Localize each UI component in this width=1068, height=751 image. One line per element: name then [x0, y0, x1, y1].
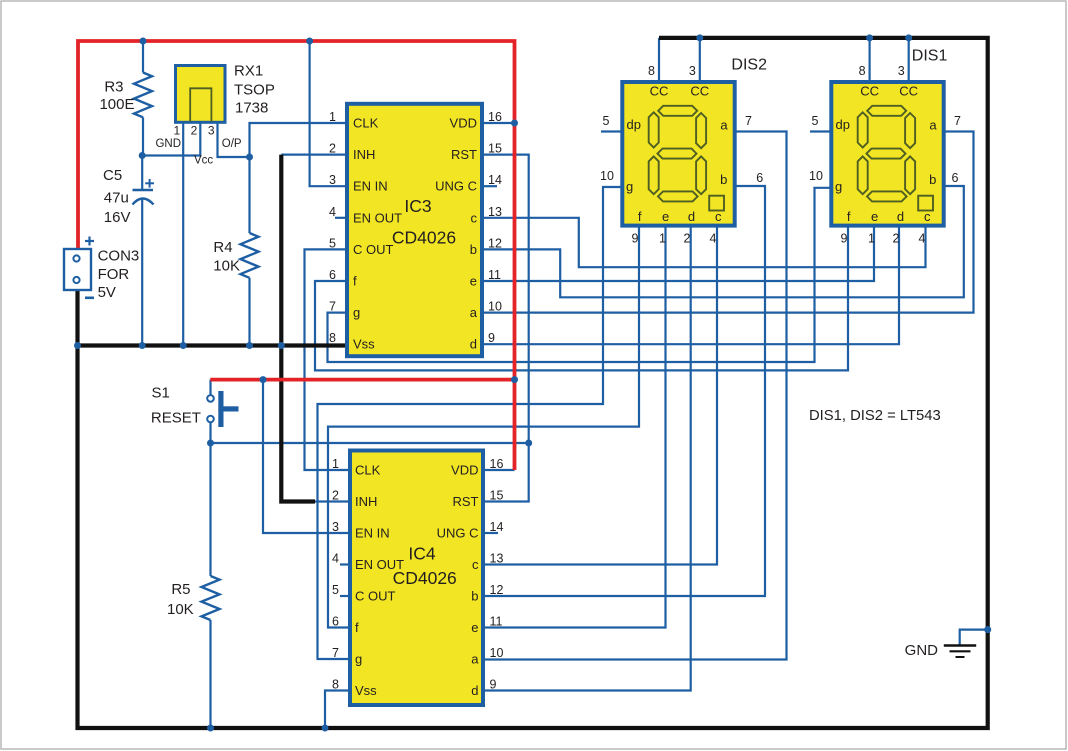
svg-text:c: c — [924, 209, 931, 224]
svg-text:c: c — [472, 557, 479, 572]
svg-text:9: 9 — [490, 678, 497, 692]
svg-text:1: 1 — [659, 232, 666, 246]
svg-text:IC3: IC3 — [404, 196, 431, 216]
svg-text:5: 5 — [332, 583, 339, 597]
svg-text:12: 12 — [490, 583, 504, 597]
svg-text:15: 15 — [490, 489, 504, 503]
svg-text:e: e — [662, 209, 669, 224]
svg-text:5: 5 — [329, 236, 336, 250]
svg-text:1738: 1738 — [235, 100, 268, 117]
svg-text:a: a — [471, 652, 479, 667]
svg-text:FOR: FOR — [98, 266, 130, 283]
svg-text:c: c — [471, 210, 478, 225]
svg-text:10K: 10K — [213, 257, 240, 274]
svg-text:d: d — [471, 683, 478, 698]
svg-text:g: g — [626, 179, 633, 194]
svg-text:CD4026: CD4026 — [392, 228, 456, 248]
svg-text:100E: 100E — [99, 96, 134, 113]
svg-text:Vss: Vss — [353, 337, 375, 352]
svg-text:Vcc: Vcc — [194, 155, 213, 167]
svg-text:2: 2 — [191, 124, 198, 138]
svg-text:CLK: CLK — [355, 463, 381, 478]
svg-text:5: 5 — [812, 114, 819, 128]
svg-text:Vss: Vss — [355, 683, 377, 698]
svg-text:13: 13 — [488, 205, 502, 219]
svg-text:d: d — [688, 209, 695, 224]
svg-text:R3: R3 — [104, 79, 123, 96]
svg-text:16: 16 — [488, 110, 502, 124]
svg-text:7: 7 — [954, 114, 961, 128]
svg-text:CC: CC — [860, 84, 879, 99]
svg-text:c: c — [715, 209, 722, 224]
svg-text:e: e — [471, 620, 478, 635]
svg-text:b: b — [929, 172, 936, 187]
svg-text:b: b — [720, 172, 727, 187]
svg-text:11: 11 — [488, 268, 501, 282]
svg-text:TSOP: TSOP — [234, 82, 275, 99]
svg-text:5V: 5V — [98, 284, 116, 301]
svg-text:9: 9 — [632, 232, 639, 246]
svg-text:a: a — [720, 118, 728, 133]
svg-text:g: g — [353, 305, 360, 320]
svg-text:DIS2: DIS2 — [731, 57, 767, 74]
svg-text:R5: R5 — [171, 581, 190, 598]
svg-text:8: 8 — [859, 64, 866, 78]
svg-text:7: 7 — [745, 114, 752, 128]
svg-text:9: 9 — [841, 232, 848, 246]
svg-text:16: 16 — [490, 457, 504, 471]
svg-text:a: a — [929, 118, 937, 133]
svg-text:CLK: CLK — [353, 116, 379, 131]
svg-text:3: 3 — [898, 64, 905, 78]
svg-text:CC: CC — [899, 84, 918, 99]
svg-text:VDD: VDD — [451, 463, 478, 478]
svg-text:10: 10 — [490, 646, 504, 660]
svg-text:3: 3 — [332, 520, 339, 534]
svg-text:4: 4 — [710, 232, 717, 246]
svg-text:1: 1 — [332, 457, 339, 471]
svg-text:10: 10 — [809, 169, 823, 183]
svg-text:g: g — [355, 652, 362, 667]
svg-text:UNG C: UNG C — [437, 526, 479, 541]
svg-text:1: 1 — [174, 124, 181, 138]
svg-text:GND: GND — [905, 642, 939, 659]
svg-text:RST: RST — [451, 147, 477, 162]
svg-text:b: b — [471, 589, 478, 604]
svg-text:VDD: VDD — [450, 116, 477, 131]
svg-text:10K: 10K — [167, 601, 194, 618]
svg-text:2: 2 — [893, 232, 900, 246]
svg-text:6: 6 — [332, 615, 339, 629]
svg-text:5: 5 — [603, 114, 610, 128]
svg-text:1: 1 — [868, 232, 875, 246]
svg-text:3: 3 — [208, 124, 215, 138]
svg-text:UNG C: UNG C — [435, 179, 477, 194]
svg-text:RESET: RESET — [151, 410, 201, 427]
svg-text:2: 2 — [684, 232, 691, 246]
svg-text:CON3: CON3 — [98, 248, 140, 265]
svg-text:EN IN: EN IN — [355, 526, 390, 541]
svg-text:C OUT: C OUT — [353, 242, 394, 257]
svg-text:GND: GND — [155, 138, 181, 150]
svg-text:R4: R4 — [213, 239, 232, 256]
svg-text:b: b — [470, 242, 477, 257]
svg-text:f: f — [355, 620, 359, 635]
svg-text:15: 15 — [488, 142, 502, 156]
svg-text:C OUT: C OUT — [355, 589, 396, 604]
svg-text:e: e — [871, 209, 878, 224]
svg-text:47u: 47u — [104, 190, 129, 207]
svg-text:10: 10 — [600, 169, 614, 183]
svg-text:CD4026: CD4026 — [393, 568, 457, 588]
svg-text:6: 6 — [952, 171, 959, 185]
svg-text:14: 14 — [488, 173, 502, 187]
svg-text:8: 8 — [329, 331, 336, 345]
svg-text:CC: CC — [690, 84, 709, 99]
svg-text:9: 9 — [488, 331, 495, 345]
svg-text:14: 14 — [490, 520, 504, 534]
svg-text:12: 12 — [488, 236, 502, 250]
svg-text:DIS1, DIS2 = LT543: DIS1, DIS2 = LT543 — [809, 408, 941, 424]
svg-text:4: 4 — [919, 232, 926, 246]
svg-text:e: e — [470, 274, 477, 289]
svg-text:16V: 16V — [104, 209, 131, 226]
svg-text:C5: C5 — [103, 167, 122, 184]
svg-text:6: 6 — [329, 268, 336, 282]
svg-text:f: f — [353, 274, 357, 289]
svg-text:DIS1: DIS1 — [912, 47, 948, 64]
svg-text:INH: INH — [355, 494, 377, 509]
svg-text:7: 7 — [329, 300, 336, 314]
svg-text:4: 4 — [332, 552, 339, 566]
svg-text:f: f — [847, 209, 851, 224]
svg-text:d: d — [897, 209, 904, 224]
svg-text:f: f — [638, 209, 642, 224]
svg-text:g: g — [835, 179, 842, 194]
svg-text:S1: S1 — [152, 385, 170, 402]
svg-text:RX1: RX1 — [234, 63, 263, 80]
svg-text:10: 10 — [488, 300, 502, 314]
svg-text:d: d — [470, 337, 477, 352]
svg-text:8: 8 — [648, 64, 655, 78]
svg-text:2: 2 — [332, 489, 339, 503]
svg-text:a: a — [470, 305, 478, 320]
svg-text:IC4: IC4 — [408, 544, 436, 564]
svg-text:EN IN: EN IN — [353, 179, 388, 194]
svg-text:11: 11 — [490, 615, 503, 629]
svg-text:6: 6 — [756, 171, 763, 185]
svg-text:2: 2 — [329, 142, 336, 156]
svg-text:dp: dp — [836, 117, 850, 132]
svg-text:3: 3 — [329, 173, 336, 187]
svg-text:dp: dp — [627, 117, 641, 132]
svg-text:CC: CC — [650, 84, 669, 99]
svg-text:INH: INH — [353, 147, 375, 162]
svg-text:4: 4 — [329, 205, 336, 219]
svg-text:O/P: O/P — [222, 138, 242, 150]
svg-text:3: 3 — [689, 64, 696, 78]
svg-text:EN OUT: EN OUT — [353, 210, 402, 225]
svg-text:1: 1 — [329, 110, 336, 124]
svg-text:RST: RST — [453, 494, 479, 509]
svg-text:13: 13 — [490, 552, 504, 566]
svg-text:7: 7 — [332, 646, 339, 660]
svg-text:8: 8 — [332, 678, 339, 692]
